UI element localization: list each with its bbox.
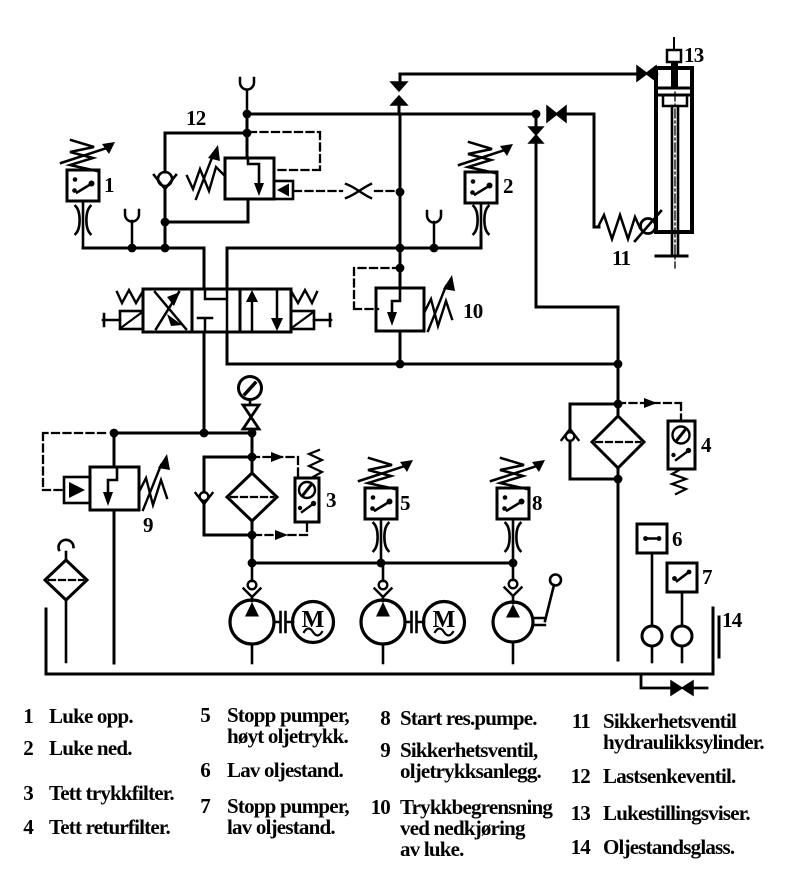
indicator 3 spring bbox=[309, 450, 322, 477]
node y248-x400 bbox=[396, 244, 405, 253]
dashed pilot valve 9 bbox=[43, 433, 105, 490]
dashed pilot valve 10 bbox=[354, 268, 400, 309]
oil level glass 14 bbox=[718, 617, 721, 657]
svg-text:13: 13 bbox=[684, 43, 704, 67]
hydraulic cylinder body bbox=[656, 68, 692, 232]
shut-off valve V1 (vertical, x400) bbox=[399, 74, 402, 83]
test point TP3 bbox=[433, 222, 436, 248]
closed restrictor symbol on pilot bbox=[346, 184, 371, 198]
drain line with valve bbox=[641, 674, 671, 688]
rod centerline bbox=[674, 92, 676, 268]
pump P1 bbox=[230, 600, 274, 644]
hand pump P3 bbox=[493, 602, 533, 642]
valve 10 spring bbox=[424, 299, 452, 326]
float 7 bbox=[672, 626, 692, 646]
svg-text:4: 4 bbox=[23, 815, 34, 839]
svg-text:Start res.pumpe.: Start res.pumpe. bbox=[400, 706, 537, 730]
hand pump lever bbox=[533, 618, 545, 625]
pump 1 check valve bbox=[251, 563, 254, 601]
U1 centre position bbox=[205, 289, 227, 332]
svg-text:8: 8 bbox=[532, 491, 542, 515]
valve 9 spring bbox=[139, 478, 167, 505]
U1 right spring bbox=[291, 290, 317, 303]
node y433 x114 bbox=[110, 429, 119, 438]
svg-text:8: 8 bbox=[380, 706, 390, 730]
svg-text:10: 10 bbox=[371, 795, 391, 819]
valve 10 spring arrow bbox=[428, 286, 446, 331]
svg-text:Lav oljestand.: Lav oljestand. bbox=[227, 758, 344, 782]
node return x618 bbox=[614, 360, 623, 369]
relief valve 9 body bbox=[113, 433, 116, 467]
test point TP1 bbox=[131, 221, 134, 248]
svg-text:1: 1 bbox=[23, 704, 33, 728]
check valve (counterbalance bypass) bbox=[164, 133, 167, 172]
svg-text:7: 7 bbox=[702, 565, 712, 589]
safety valve 11 spring bbox=[598, 215, 640, 239]
node y248-x165 bbox=[161, 244, 170, 253]
valve 12 spring bbox=[187, 167, 225, 191]
dashed pilot line valve 12 bbox=[294, 190, 398, 192]
node return x400 bbox=[396, 360, 405, 369]
relief valve 10 body bbox=[376, 288, 424, 331]
indicator 4 spring bbox=[672, 469, 686, 494]
clogging indicator 4 bbox=[618, 403, 681, 419]
svg-text:3: 3 bbox=[23, 781, 33, 805]
node y114-x536 bbox=[532, 110, 541, 119]
return filter 4 bbox=[617, 364, 620, 416]
svg-text:6: 6 bbox=[200, 758, 210, 782]
suction strainer (diamond) bbox=[45, 560, 87, 600]
counterbalance valve 12 body bbox=[225, 158, 274, 199]
motor M1 bbox=[274, 621, 293, 624]
pressure gauge PG1 bbox=[239, 377, 262, 400]
svg-text:12: 12 bbox=[571, 764, 591, 788]
node y114-x247 bbox=[243, 110, 252, 119]
svg-text:Luke opp.: Luke opp. bbox=[49, 704, 133, 728]
pressure switch 1 bbox=[67, 170, 99, 201]
piston rod bbox=[672, 106, 678, 256]
valve 12 pilot cap bbox=[274, 181, 293, 199]
U1 right position arrows bbox=[251, 299, 254, 331]
svg-text:9: 9 bbox=[143, 513, 153, 537]
tank outline bbox=[46, 608, 713, 674]
node x247 y133 bbox=[243, 129, 252, 138]
directional valve U1 body 4/3 bbox=[143, 289, 291, 332]
float 6 bbox=[642, 626, 662, 646]
filter 4 bypass check valve bbox=[570, 404, 618, 429]
svg-text:6: 6 bbox=[672, 527, 682, 551]
cylinder piston bbox=[656, 88, 692, 95]
svg-text:7: 7 bbox=[200, 794, 210, 818]
pressure switch 5 bbox=[365, 488, 397, 519]
pressure filter 3 bbox=[251, 433, 254, 473]
node y433 x204 bbox=[200, 429, 209, 438]
pump P2 bbox=[361, 600, 405, 644]
wire port P down bbox=[203, 332, 206, 433]
U1 left spring bbox=[117, 290, 143, 303]
wire 12-loop bottom y222 bbox=[165, 199, 248, 222]
node pilot x400 y268 bbox=[396, 264, 405, 273]
svg-text:3: 3 bbox=[326, 488, 336, 512]
dashed sense line valve 12 bbox=[249, 132, 320, 170]
clogging indicator 3 bbox=[252, 457, 298, 476]
svg-text:2: 2 bbox=[503, 174, 513, 198]
U1 left position crossed arrows bbox=[155, 292, 186, 329]
wire main line y114 bbox=[247, 113, 536, 116]
air breather bbox=[59, 540, 74, 550]
svg-text:Lukestillingsviser.: Lukestillingsviser. bbox=[603, 801, 750, 825]
svg-text:10: 10 bbox=[463, 299, 483, 323]
U1 left solenoid bbox=[120, 311, 143, 329]
svg-text:5: 5 bbox=[200, 703, 210, 727]
wire bypass down to return bbox=[536, 307, 618, 363]
svg-text:Lastsenkeventil.: Lastsenkeventil. bbox=[603, 764, 736, 788]
svg-text:Oljestandsglass.: Oljestandsglass. bbox=[603, 835, 735, 859]
svg-text:9: 9 bbox=[380, 738, 390, 762]
svg-text:1: 1 bbox=[104, 173, 114, 197]
U1 right solenoid bbox=[291, 311, 314, 329]
gauge shut-off valve bbox=[243, 405, 259, 429]
valve 9 pilot cap bbox=[64, 477, 90, 503]
wire work line A y248 left bbox=[83, 248, 204, 289]
svg-text:Tett returfilter.: Tett returfilter. bbox=[49, 815, 170, 839]
shut-off valve V4 (cylinder top) bbox=[637, 66, 656, 81]
node y433 x252 bbox=[248, 429, 257, 438]
svg-text:hydraulikksylinder.: hydraulikksylinder. bbox=[603, 730, 764, 754]
svg-text:lav oljestand.: lav oljestand. bbox=[227, 815, 335, 839]
wire cylinder top supply y73 bbox=[400, 73, 636, 76]
svg-text:14: 14 bbox=[722, 608, 743, 632]
pressure switch 8 bbox=[497, 488, 529, 519]
wire pump manifold y563 bbox=[252, 562, 513, 565]
valve 9 spring arrow bbox=[143, 465, 161, 510]
svg-text:Tett trykkfilter.: Tett trykkfilter. bbox=[49, 781, 174, 805]
motor M2 bbox=[405, 621, 424, 624]
svg-text:5: 5 bbox=[400, 491, 410, 515]
wire work line B y248 right bbox=[227, 233, 481, 289]
diagram numeral labels bbox=[104, 43, 743, 632]
test point TP2 (top, above line y114) bbox=[246, 90, 249, 114]
svg-text:4: 4 bbox=[701, 433, 712, 457]
svg-text:høyt oljetrykk.: høyt oljetrykk. bbox=[227, 724, 349, 748]
svg-text:11: 11 bbox=[572, 709, 591, 733]
svg-text:av luke.: av luke. bbox=[400, 837, 464, 861]
svg-text:11: 11 bbox=[612, 246, 631, 270]
filter 3 bypass check valve bbox=[204, 457, 252, 492]
svg-text:14: 14 bbox=[571, 835, 592, 859]
wire port T to return line y364 bbox=[227, 332, 618, 364]
svg-text:12: 12 bbox=[186, 106, 206, 130]
wire vertical x400 bbox=[399, 114, 402, 288]
hand pump check valve bbox=[512, 563, 515, 603]
wire 12-loop top y133 bbox=[165, 132, 247, 135]
svg-text:2: 2 bbox=[23, 736, 33, 760]
level switch 7 bbox=[667, 563, 697, 592]
node pilot x400 y192 bbox=[396, 188, 405, 197]
legend text bbox=[23, 703, 764, 861]
svg-text:oljetrykksanlegg.: oljetrykksanlegg. bbox=[400, 759, 542, 783]
svg-text:13: 13 bbox=[571, 801, 591, 825]
pressure switch 2 bbox=[465, 172, 497, 203]
level switch 6 bbox=[637, 524, 667, 553]
shut-off valve V2 (horizontal, to cylinder bottom) bbox=[547, 106, 566, 122]
wire to cylinder bottom loop bbox=[566, 114, 599, 227]
svg-text:Luke ned.: Luke ned. bbox=[49, 736, 132, 760]
valve 12 spring arrow bbox=[196, 155, 213, 199]
shut-off valve V3 (vertical, x536) bbox=[529, 127, 543, 143]
position indicator 13 bbox=[667, 50, 681, 62]
safety valve 11 seat bbox=[641, 219, 656, 234]
wire pump pressure header y433 bbox=[114, 432, 252, 435]
pump 2 check valve bbox=[382, 563, 385, 601]
